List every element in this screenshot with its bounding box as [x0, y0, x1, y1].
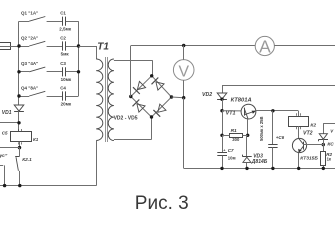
svg-text:К1: К1 — [33, 137, 39, 142]
svg-text:С3: С3 — [60, 61, 66, 66]
svg-text:V: V — [330, 129, 334, 134]
svg-text:10м: 10м — [228, 156, 236, 161]
svg-text:С5: С5 — [2, 130, 8, 135]
svg-text:10мк: 10мк — [61, 77, 72, 82]
svg-text:+: + — [223, 148, 226, 152]
svg-text:С1: С1 — [60, 11, 66, 16]
svg-text:+С6: +С6 — [276, 135, 285, 140]
svg-text:Q2 "2А": Q2 "2А" — [21, 35, 38, 40]
svg-text:Т1: Т1 — [97, 41, 109, 52]
svg-text:1к: 1к — [327, 156, 332, 161]
svg-text:V: V — [179, 64, 190, 81]
svg-text:Q1 "1А": Q1 "1А" — [21, 11, 38, 16]
svg-text:Q3 "4А": Q3 "4А" — [21, 61, 38, 66]
svg-text:Д814Б: Д814Б — [251, 159, 268, 165]
svg-text:К2.1: К2.1 — [22, 157, 32, 162]
svg-text:Q4 "8А": Q4 "8А" — [21, 85, 38, 90]
svg-text:А: А — [259, 36, 271, 56]
svg-text:КТ315Б: КТ315Б — [300, 155, 318, 161]
svg-text:КС: КС — [327, 141, 334, 147]
svg-text:300: 300 — [232, 137, 240, 142]
svg-text:VD1: VD1 — [2, 110, 12, 116]
svg-text:VT2: VT2 — [303, 130, 313, 136]
svg-text:R1: R1 — [231, 128, 237, 134]
svg-text:5мк: 5мк — [61, 51, 70, 56]
svg-text:500мк х 25В: 500мк х 25В — [259, 116, 264, 141]
svg-text:VD2 - VD5: VD2 - VD5 — [114, 116, 138, 122]
svg-text:VT1: VT1 — [226, 110, 236, 116]
svg-text:С7: С7 — [228, 148, 234, 153]
svg-text:К2: К2 — [310, 122, 316, 128]
svg-text:КТ801А: КТ801А — [231, 98, 252, 104]
svg-text:VD2: VD2 — [202, 92, 212, 98]
svg-text:ус”: ус” — [0, 153, 8, 159]
svg-text:20мк: 20мк — [61, 101, 72, 106]
svg-text:С2: С2 — [60, 35, 66, 40]
svg-text:С4: С4 — [60, 85, 66, 90]
svg-text:2,5мк: 2,5мк — [59, 27, 72, 32]
svg-text:Рис. 3: Рис. 3 — [135, 193, 189, 214]
